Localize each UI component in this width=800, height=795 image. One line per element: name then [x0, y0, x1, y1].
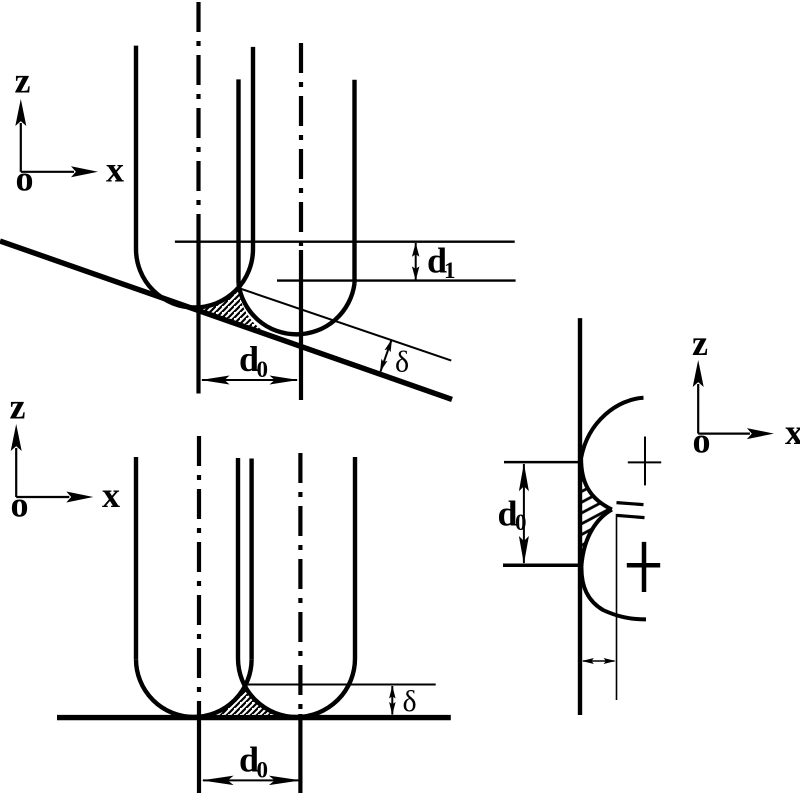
svg-text:z: z: [10, 387, 26, 427]
svg-text:x: x: [102, 475, 120, 515]
svg-text:z: z: [692, 323, 708, 363]
svg-text:o: o: [693, 421, 711, 461]
svg-text:δ: δ: [395, 346, 409, 379]
svg-text:z: z: [15, 61, 31, 101]
svg-text:0: 0: [257, 758, 269, 783]
svg-text:o: o: [16, 159, 34, 199]
svg-text:x: x: [785, 412, 800, 452]
svg-text:0: 0: [515, 510, 527, 535]
svg-text:1: 1: [444, 258, 456, 283]
svg-text:0: 0: [257, 357, 269, 382]
svg-text:δ: δ: [403, 685, 417, 718]
svg-text:x: x: [106, 150, 124, 190]
svg-text:o: o: [11, 485, 29, 525]
